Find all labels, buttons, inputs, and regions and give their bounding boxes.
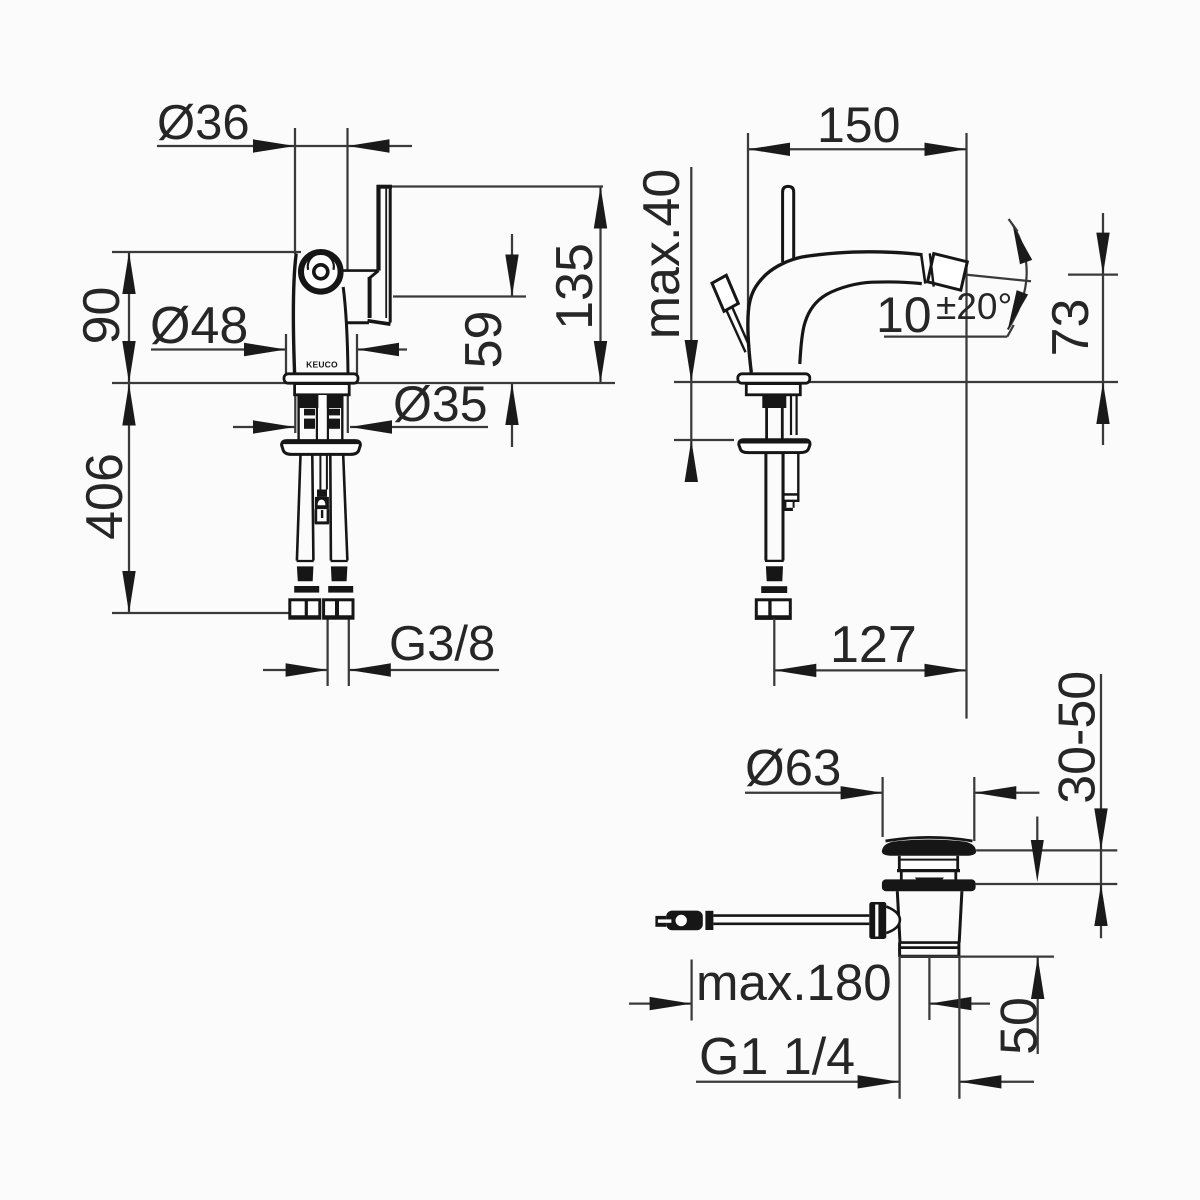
clamp reference line max.40	[674, 439, 734, 441]
escutcheon side view	[738, 374, 810, 383]
hose end nut side	[756, 600, 790, 619]
406 arrows	[122, 384, 135, 426]
30-50 top reference line	[976, 849, 1117, 851]
dimension Ø36 line and arrows	[157, 145, 412, 147]
valve body	[897, 891, 900, 942]
dimension 127 line and arrows	[774, 669, 966, 671]
svg-text:406: 406	[76, 453, 134, 540]
dimension 73 line and arrows	[1102, 213, 1104, 445]
deck reference line side view	[674, 381, 1118, 383]
escutcheon deck plate	[284, 374, 358, 383]
side port	[869, 902, 886, 939]
73 top tick	[1068, 273, 1118, 275]
body left outline	[293, 254, 296, 374]
down tube side	[764, 453, 767, 561]
lever rod side view	[783, 186, 794, 262]
drain flange	[882, 879, 976, 891]
svg-text:59: 59	[455, 311, 513, 369]
extension line 127 left	[773, 619, 775, 687]
extension line faucet axis	[747, 133, 749, 316]
dimension 135 line and arrows	[599, 187, 601, 384]
dimension Ø48 line and arrows	[151, 348, 286, 350]
rod stepped tubes side	[783, 453, 798, 495]
svg-text:135: 135	[546, 243, 604, 330]
thread tabs	[304, 409, 315, 416]
extension lines Ø48	[285, 334, 287, 374]
body right outline	[343, 287, 348, 374]
drain centerline	[928, 957, 930, 1020]
dimension 150 line and arrows	[748, 148, 967, 150]
deck reference line left view	[112, 382, 615, 384]
dimension 50 line and arrow	[1037, 957, 1039, 1054]
extension lines Ø63	[881, 777, 883, 837]
arc end tick	[1009, 219, 1018, 232]
10 degree reference line	[967, 275, 1031, 282]
extension line spout tip vertical	[965, 133, 967, 719]
extension lines Ø36	[294, 128, 296, 254]
30-50 bottom reference line	[976, 883, 1118, 885]
side lever handle	[712, 275, 738, 311]
extension line handle top (135 ref)	[390, 185, 603, 187]
faucet pivot joint circle	[301, 252, 341, 292]
extension lines Ø35	[294, 395, 296, 433]
dimension max.180 line and arrows	[629, 1002, 692, 1004]
mounting collar	[295, 384, 350, 395]
rod tube side	[790, 395, 792, 435]
svg-text:Ø63: Ø63	[745, 739, 841, 796]
svg-text:G1 1/4: G1 1/4	[699, 1028, 855, 1086]
svg-text:max.180: max.180	[696, 954, 892, 1011]
svg-text:73: 73	[1042, 299, 1100, 357]
dimension G3/8 line and arrows	[263, 669, 328, 671]
svg-text:G3/8: G3/8	[389, 617, 495, 671]
hose crimp and fittings	[297, 560, 314, 562]
locknut flange side	[739, 440, 810, 453]
reference line top of 90	[112, 251, 301, 253]
shank tube side	[765, 408, 768, 440]
dimension Ø35 line and arrows	[233, 426, 295, 428]
extension lines G3/8	[326, 619, 328, 686]
aerator tip	[928, 254, 968, 291]
spout end edge	[921, 255, 925, 283]
crimp side	[765, 560, 784, 562]
dimension G1 1/4 line and arrows	[696, 1081, 900, 1083]
dimension 30-50 line and arrows	[1100, 674, 1102, 938]
locknut flange	[282, 441, 361, 455]
dimension max.40 line and arrows	[690, 167, 692, 470]
svg-text:30-50: 30-50	[1049, 671, 1107, 804]
hose end nuts	[290, 600, 320, 618]
dimension Ø63 line and arrows	[745, 792, 883, 794]
shank verticals	[297, 395, 299, 441]
spout inner outline	[800, 282, 922, 364]
svg-text:Ø36: Ø36	[157, 96, 250, 150]
svg-text:90: 90	[73, 287, 131, 345]
dimension max.180 extension	[690, 960, 692, 1021]
swivel angle arc	[1008, 225, 1027, 330]
dimension 90/406 shared line	[128, 252, 130, 613]
spout body outline	[748, 252, 923, 373]
shank black band side	[762, 395, 786, 408]
svg-text:max.40: max.40	[633, 169, 691, 340]
link line circle to handle	[342, 269, 378, 272]
pop-up rod	[319, 455, 321, 490]
plug lower ring	[900, 872, 903, 883]
dimension 59 line and arrows	[511, 234, 513, 297]
svg-text:KEUCO: KEUCO	[306, 360, 338, 370]
bottom reference line 406	[112, 612, 290, 614]
extension lines G1 1/4	[898, 957, 900, 1099]
svg-text:Ø48: Ø48	[150, 297, 248, 355]
svg-text:50: 50	[991, 997, 1049, 1055]
svg-text:Ø35: Ø35	[393, 376, 488, 432]
collar side view	[746, 384, 800, 395]
threaded shank black band	[298, 395, 344, 408]
supply hoses	[297, 455, 301, 561]
deck position arrow	[1036, 817, 1038, 841]
plug cap	[886, 837, 973, 841]
handle blade left view	[376, 185, 380, 271]
plug neck	[898, 856, 901, 872]
svg-text:150: 150	[817, 97, 900, 153]
svg-text:±20°: ±20°	[936, 286, 1012, 327]
svg-text:10: 10	[876, 287, 932, 343]
pull rod	[714, 914, 870, 917]
reference line 59 (handle bottom)	[393, 295, 526, 297]
angle leader underline	[884, 335, 1007, 337]
svg-text:127: 127	[830, 616, 917, 674]
50 top reference line	[899, 955, 1054, 957]
90 arrows	[122, 252, 135, 294]
